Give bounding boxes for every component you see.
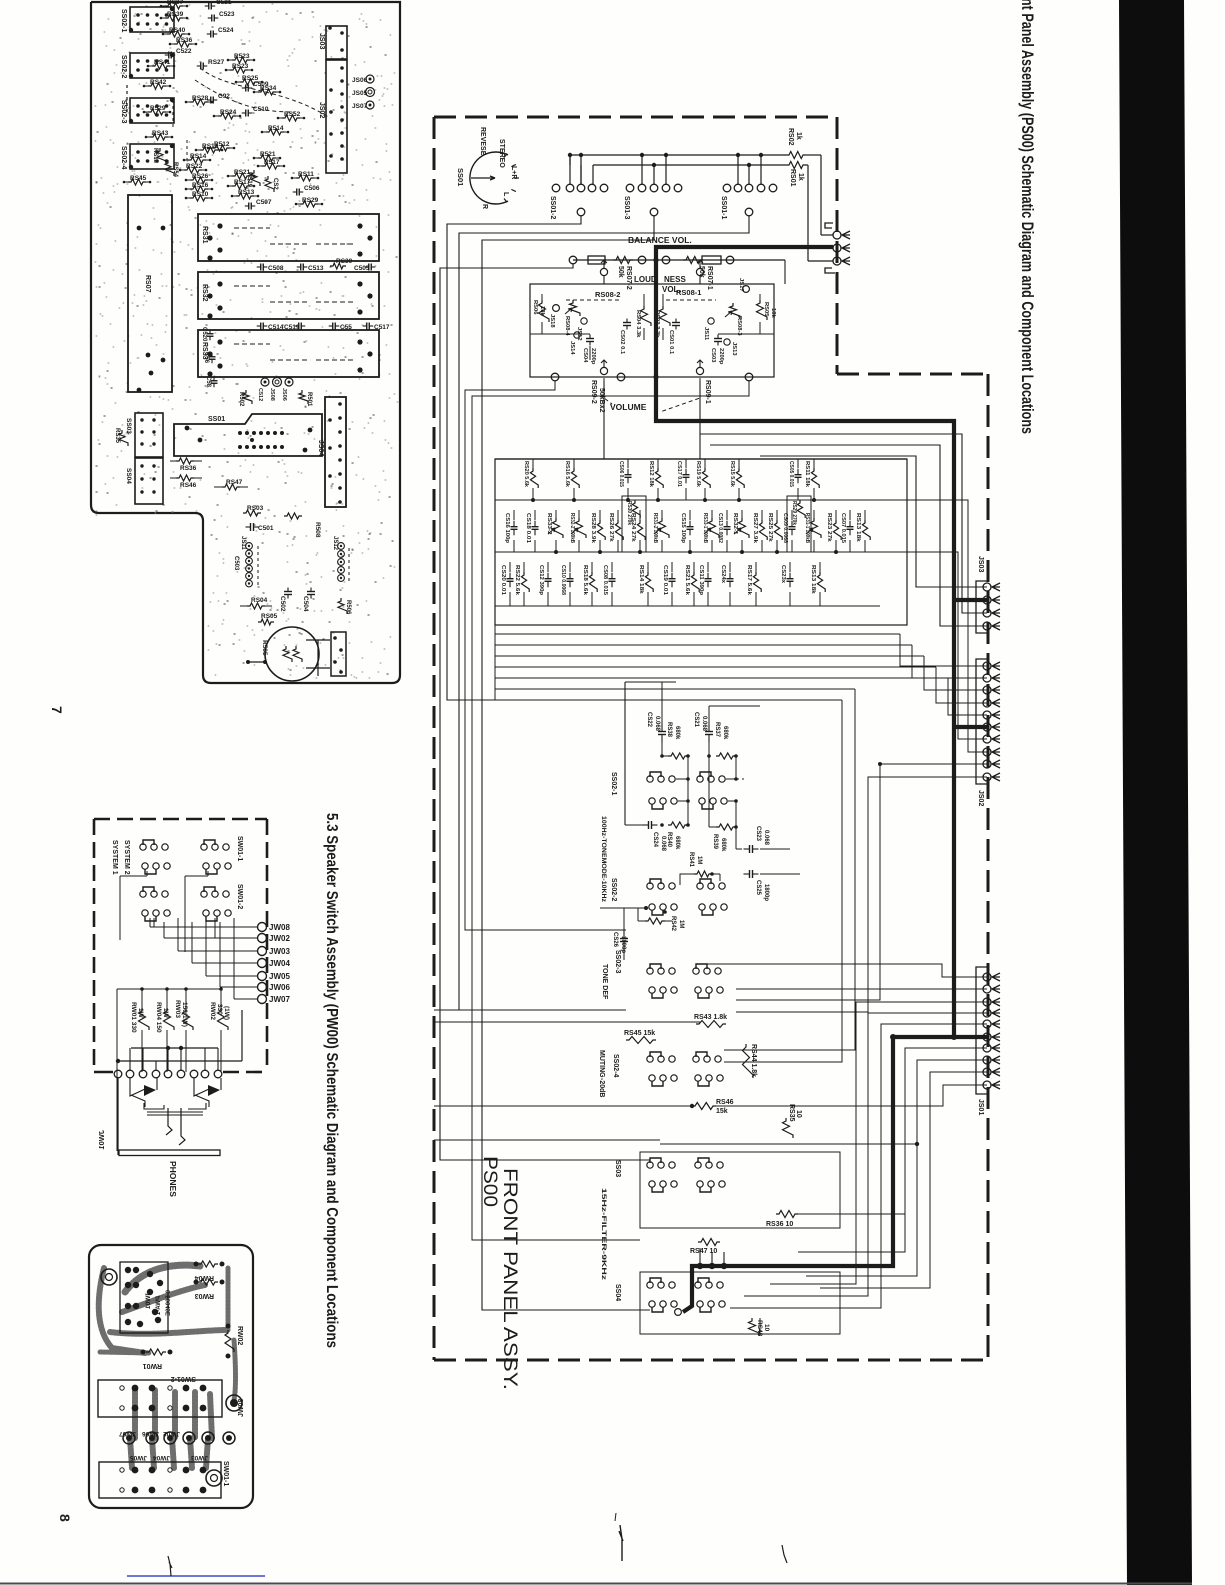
- blue pen line bottom left: [127, 1575, 265, 1577]
- switch row SS01-1: [723, 184, 731, 192]
- svg-text:100Hz-TONEMODE-10KHz: 100Hz-TONEMODE-10KHz: [600, 816, 607, 903]
- svg-text:RS09-1: RS09-1: [704, 380, 711, 404]
- PCB scattered resistors and capacitors: [165, 3, 183, 9]
- svg-text:RS04: RS04: [251, 597, 268, 604]
- svg-text:CS16 100p: CS16 100p: [504, 513, 510, 543]
- svg-text:RS41: RS41: [688, 852, 694, 868]
- svg-text:RS21 5.6k: RS21 5.6k: [684, 565, 690, 596]
- svg-text:C55: C55: [340, 324, 352, 331]
- top bus wires: [570, 154, 786, 156]
- svg-text:R505: R505: [261, 640, 268, 656]
- svg-text:R506: R506: [345, 600, 351, 615]
- PCB caps C520 C56 C58 left column: [209, 330, 211, 334]
- svg-text:JW01: JW01: [145, 1292, 152, 1309]
- svg-text:CS13 0.0082: CS13 0.0082: [717, 513, 723, 543]
- svg-text:JS12: JS12: [332, 536, 338, 551]
- svg-text:RS29: RS29: [302, 197, 319, 204]
- svg-text:0.068: 0.068: [654, 716, 660, 732]
- thick wire JS02 branch: [954, 725, 987, 729]
- terminals JW08-JW07: [258, 923, 267, 932]
- loudness network box: [530, 284, 774, 377]
- SS04 box: [640, 1272, 840, 1334]
- balance wiper circles: [600, 268, 607, 275]
- svg-text:CS06 0.015: CS06 0.015: [618, 461, 624, 488]
- resistor RS40 680k: [668, 822, 688, 828]
- svg-text:RS05: RS05: [763, 302, 769, 317]
- resistor RS22: [523, 562, 525, 572]
- resistor RS12: [657, 459, 659, 468]
- PW00 trace blobs: [125, 1265, 200, 1292]
- resistor RS27: [761, 510, 763, 520]
- right bundle verticals to JS02: [900, 634, 987, 666]
- svg-text:CS24x: CS24x: [720, 565, 726, 584]
- svg-text:RS08-3: RS08-3: [736, 316, 742, 336]
- svg-text:1k: 1k: [797, 173, 804, 181]
- svg-text:JS08: JS08: [269, 388, 275, 401]
- capacitor CS08: [611, 562, 613, 572]
- resistor RS01 1k: [786, 162, 806, 169]
- bus stubs to switch rows: [569, 155, 571, 184]
- svg-text:2200p: 2200p: [718, 348, 724, 365]
- left vertical feed wires: [465, 381, 626, 930]
- svg-text:RS24 27k: RS24 27k: [630, 513, 636, 543]
- svg-text:RS18 5.6k: RS18 5.6k: [582, 565, 588, 596]
- switch SS02-2 contacts: [650, 879, 661, 884]
- svg-text:RS03 3.3k: RS03 3.3k: [654, 310, 660, 338]
- svg-text:RS39: RS39: [712, 834, 718, 850]
- switch SS03 contacts: [650, 1158, 661, 1163]
- wires to tone right side: [700, 434, 987, 613]
- tone block rails: [495, 499, 907, 501]
- svg-text:RS19: RS19: [246, 172, 252, 188]
- svg-text:RS35: RS35: [114, 428, 120, 444]
- phones jack left wire: [117, 1078, 119, 1155]
- svg-text:REVESE: REVESE: [479, 127, 486, 156]
- capacitor CS23x: [789, 562, 791, 572]
- PCB pot RS31: [198, 214, 379, 261]
- PCB caps C502 C504: [287, 588, 289, 592]
- svg-text:JW01: JW01: [97, 1130, 106, 1150]
- svg-text:RS05: RS05: [261, 613, 278, 620]
- svg-text:RW03: RW03: [195, 1292, 214, 1299]
- svg-text:RW02: RW02: [209, 1002, 216, 1020]
- svg-text:JW03: JW03: [269, 947, 290, 956]
- svg-text:RS38: RS38: [666, 722, 672, 738]
- svg-text:RS26 27k: RS26 27k: [608, 513, 614, 543]
- svg-text:SW01-2: SW01-2: [171, 1375, 196, 1382]
- svg-text:RS41: RS41: [154, 59, 171, 66]
- svg-text:RS13 18k: RS13 18k: [855, 513, 861, 543]
- svg-text:SS03: SS03: [125, 418, 132, 434]
- svg-text:SS01-1: SS01-1: [720, 196, 727, 219]
- resistor RS31-1: [813, 510, 815, 520]
- svg-text:RS26: RS26: [192, 173, 209, 180]
- svg-text:R523: R523: [234, 53, 250, 60]
- svg-text:RS36: RS36: [176, 37, 193, 44]
- svg-text:C501: C501: [258, 525, 274, 532]
- PCB dashed wire left: [126, 85, 128, 112]
- svg-text:RS42: RS42: [670, 916, 676, 932]
- svg-text:CS05 0.015: CS05 0.015: [788, 461, 794, 488]
- resistor RS36 10: [776, 1211, 798, 1218]
- svg-text:R502: R502: [238, 392, 244, 407]
- svg-text:JW07: JW07: [119, 1430, 136, 1437]
- svg-text:C507: C507: [256, 199, 272, 206]
- svg-text:RS20 5.6k: RS20 5.6k: [523, 461, 529, 488]
- wire into SS02-2: [600, 907, 646, 909]
- svg-text:CS17 0.01: CS17 0.01: [676, 461, 682, 488]
- svg-text:STEREO: STEREO: [498, 139, 505, 168]
- svg-text:JS18: JS18: [549, 314, 555, 328]
- switch row SS01-3: [626, 184, 634, 192]
- svg-text:CS09 0.0068: CS09 0.0068: [782, 513, 788, 544]
- PW00 pad cluster rect: [120, 1262, 168, 1333]
- connector JS04 pins: [825, 223, 833, 228]
- switch block SS02-1 left rail: [624, 682, 626, 825]
- switch SS04 contacts: [650, 1278, 661, 1283]
- svg-text:RW01 330: RW01 330: [130, 1002, 137, 1033]
- PCB rotary switch SS01 block: [174, 414, 322, 456]
- svg-text:SYSTEM 2: SYSTEM 2: [123, 840, 130, 875]
- PW00 resistor RW04: [198, 1261, 218, 1267]
- svg-text:1800p: 1800p: [763, 884, 769, 901]
- svg-text:1M: 1M: [678, 920, 684, 928]
- phones jack spring contacts: [144, 1103, 164, 1109]
- resistor RS44 1.8k: [743, 1044, 754, 1078]
- resistor RW04 150 1W: [164, 1008, 175, 1030]
- svg-text:JS01: JS01: [977, 1099, 984, 1115]
- PW00 resistor RW03: [198, 1279, 218, 1285]
- switch SS02-1 contacts row2: [649, 798, 655, 804]
- svg-text:SS02-1: SS02-1: [120, 9, 127, 32]
- resistor RS16: [573, 459, 575, 468]
- svg-text:0-50049E: 0-50049E: [166, 1290, 172, 1316]
- junction dots on bundle: [915, 1142, 919, 1146]
- PW00 board outline: [89, 1245, 253, 1508]
- nested wire rails below tone block: [495, 633, 900, 635]
- svg-text:JW05: JW05: [130, 1454, 147, 1461]
- svg-text:0.068: 0.068: [763, 830, 769, 846]
- PCB stipple texture: [95, 4, 398, 678]
- PCB resistors RS36 RS46 RS47: [176, 458, 194, 464]
- resistor RS32-1: [741, 510, 743, 520]
- svg-text:RS13 18k: RS13 18k: [810, 565, 816, 595]
- svg-text:C517: C517: [374, 324, 390, 331]
- resistor RS06 18k: [539, 300, 550, 322]
- svg-text:JW02: JW02: [163, 1430, 180, 1437]
- svg-text:RS03: RS03: [247, 505, 264, 512]
- svg-text:NESS: NESS: [664, 275, 686, 284]
- svg-text:JS13: JS13: [731, 342, 737, 356]
- svg-text:JS04: JS04: [317, 440, 324, 456]
- PCB pads JS06 JS05 JS07: [366, 75, 374, 83]
- resistor RS33-1: [711, 510, 713, 520]
- capacitor CS21 0.068: [708, 724, 710, 732]
- svg-text:RS24: RS24: [220, 109, 237, 116]
- resistor RS18: [591, 562, 593, 572]
- svg-text:18k: 18k: [539, 306, 545, 316]
- svg-text:1k: 1k: [795, 132, 802, 140]
- svg-text:R514: R514: [268, 125, 284, 132]
- resistor RS05 18k: [757, 300, 768, 320]
- capacitor CS13: [726, 510, 728, 520]
- svg-text:JW08: JW08: [269, 923, 290, 932]
- PW00 dashed border: [94, 818, 267, 821]
- PW00 resistor RW02: [225, 1330, 234, 1352]
- PCB cap row C514 C519 C55 C517: [257, 325, 261, 327]
- svg-text:CS08 0.015: CS08 0.015: [602, 565, 608, 596]
- svg-text:18k: 18k: [770, 308, 776, 318]
- svg-text:JW07: JW07: [269, 995, 290, 1004]
- volume wiper wires down: [603, 381, 605, 459]
- svg-text:RW03: RW03: [174, 1000, 181, 1018]
- horizontal feeds lower left: [434, 1105, 692, 1107]
- svg-text:15Hz-FILTER-9KHz: 15Hz-FILTER-9KHz: [600, 1188, 607, 1281]
- svg-text:RS11 18k: RS11 18k: [804, 461, 810, 488]
- capacitor CS20: [509, 562, 511, 572]
- capacitor CS06: [627, 459, 629, 468]
- svg-text:L+R: L+R: [510, 166, 517, 179]
- capacitor CS03 2200p: [717, 335, 719, 339]
- svg-text:C519: C519: [284, 324, 300, 331]
- svg-text:SS02-3: SS02-3: [120, 100, 127, 123]
- phones bar: [119, 1150, 220, 1156]
- svg-text:SS01: SS01: [456, 168, 465, 186]
- capacitor CS25 1800p: [744, 873, 750, 875]
- switch SS02-1 contacts row1: [650, 772, 661, 777]
- PCB resistors RS04 RS05 RS06: [247, 603, 265, 609]
- svg-text:JW03: JW03: [191, 1454, 208, 1461]
- phones jack terminals: [114, 1070, 122, 1078]
- svg-text:680k: 680k: [674, 836, 680, 850]
- resistor RS43 1.8k: [696, 1021, 726, 1028]
- svg-text:RS43 1.8k: RS43 1.8k: [694, 1014, 727, 1021]
- capacitor CS09: [791, 510, 793, 520]
- svg-text:1M: 1M: [696, 856, 702, 864]
- svg-text:RS16: RS16: [192, 182, 209, 189]
- wire from balance line left: [440, 264, 650, 1160]
- svg-text:1W: 1W: [137, 1008, 144, 1019]
- PCB small block right of circle: [331, 632, 346, 676]
- resistor RS32-2: [578, 510, 580, 520]
- resistor RS35 10: [783, 1118, 794, 1138]
- svg-text:RS40: RS40: [666, 832, 672, 848]
- resistor RW03 150(1W): [183, 1008, 194, 1030]
- svg-text:RS17 5.6k: RS17 5.6k: [746, 565, 752, 596]
- svg-text:SW01-2: SW01-2: [236, 884, 243, 909]
- rotary switch SS01 arc: [470, 152, 508, 204]
- svg-text:MUTING: MUTING: [598, 1050, 605, 1078]
- svg-text:JS11: JS11: [703, 327, 709, 341]
- switch SW01-1 contacts: [143, 840, 154, 845]
- svg-text:R529: R529: [150, 105, 166, 112]
- svg-text:JW08: JW08: [238, 1399, 245, 1417]
- PW00 resistor RW01: [146, 1349, 166, 1355]
- svg-text:RS16 5.6k: RS16 5.6k: [564, 461, 570, 488]
- svg-text:10: 10: [795, 1110, 802, 1118]
- svg-text:5.3 Speaker Switch Assembly (: 5.3 Speaker Switch Assembly (PW00) Schem…: [323, 813, 340, 1348]
- jumper JS11: [708, 318, 714, 324]
- capacitor CS19: [671, 562, 673, 572]
- svg-text:SW01-1: SW01-1: [222, 1461, 229, 1486]
- svg-text:RS14: RS14: [190, 153, 207, 160]
- resistor RS15: [738, 459, 740, 468]
- svg-text:RS31-2 100kB: RS31-2 100kB: [652, 513, 658, 543]
- bottom scan strip: [0, 1583, 1192, 1585]
- svg-text:330: 330: [216, 1004, 223, 1015]
- PW00 switch box SW01-2: [98, 1380, 222, 1417]
- svg-text:R512: R512: [214, 141, 230, 148]
- svg-text:RS19 5.6k: RS19 5.6k: [695, 461, 701, 488]
- PCB switch SS02-1: [130, 7, 174, 32]
- resistor RS20: [532, 459, 534, 468]
- svg-text:JW04: JW04: [269, 959, 290, 968]
- thick wire junction dots SS04: [697, 1263, 703, 1269]
- svg-text:JS17: JS17: [738, 278, 744, 292]
- svg-text:JW02: JW02: [269, 934, 290, 943]
- loudness internal wires: [541, 294, 543, 300]
- resistor RS46 15k: [692, 1103, 716, 1110]
- capacitor CS05: [797, 459, 799, 468]
- PCB pot RS33: [198, 330, 379, 377]
- PS00 PCB board outline: [91, 2, 400, 683]
- jumper JS13: [724, 339, 730, 345]
- svg-text:PHONES: PHONES: [168, 1161, 178, 1197]
- svg-text:RS43: RS43: [152, 130, 169, 137]
- wires to JS04: [820, 155, 822, 235]
- PCB cap row C508 C513 RS30 C505: [257, 266, 261, 268]
- svg-text:JW05: JW05: [269, 972, 290, 981]
- resistor RS13: [819, 562, 821, 572]
- svg-text:RS08-1: RS08-1: [676, 288, 701, 297]
- svg-text:RS46: RS46: [180, 482, 197, 489]
- PCB switch SS02-4: [130, 144, 174, 169]
- scan black edge bar: [1119, 0, 1192, 1585]
- svg-text:RS27 3.9k: RS27 3.9k: [752, 513, 758, 544]
- capacitor CS12: [547, 562, 549, 572]
- resistor RS24: [639, 510, 641, 520]
- svg-text:SS01: SS01: [208, 416, 225, 423]
- resistor RS14: [647, 562, 649, 572]
- svg-text:2200p: 2200p: [590, 348, 596, 365]
- SS03 box wires: [640, 1152, 840, 1228]
- svg-text:JS11: JS11: [240, 536, 246, 550]
- svg-text:RS09-2: RS09-2: [590, 380, 597, 404]
- svg-text:C514: C514: [268, 324, 284, 331]
- PW00 screw hole right: [206, 1470, 222, 1486]
- svg-text:C504: C504: [302, 596, 309, 612]
- svg-text:RS06: RS06: [532, 300, 538, 315]
- svg-text:RS02: RS02: [787, 128, 794, 146]
- svg-text:RS23 27k: RS23 27k: [826, 513, 832, 543]
- PCB lower area RS03 C501: [243, 510, 261, 516]
- PCB vertical resistors RS18 RS54: [157, 148, 166, 164]
- PCB switch SS02-3: [130, 98, 174, 123]
- svg-text:(1W): (1W): [223, 1006, 230, 1020]
- svg-text:RS08-4: RS08-4: [564, 316, 570, 336]
- svg-text:JS14: JS14: [569, 341, 575, 355]
- resistor RW01 330 1W: [139, 1008, 150, 1030]
- svg-text:CS02 0.1: CS02 0.1: [619, 330, 625, 355]
- svg-text:RS52: RS52: [284, 111, 301, 118]
- PCB connector JS04 tall right: [325, 397, 346, 507]
- connector JS01: [976, 967, 989, 1094]
- resistor RS07-2 50k: [613, 257, 633, 264]
- PCB wires near circle: [248, 661, 265, 663]
- svg-text:RS47 10: RS47 10: [690, 1248, 717, 1255]
- PCB big circle R505: [265, 627, 319, 681]
- wire bundle JS01: [700, 964, 987, 977]
- resistor rail: [117, 988, 221, 990]
- svg-text:C502: C502: [279, 596, 286, 612]
- svg-text:RS28: RS28: [192, 95, 209, 102]
- svg-text:C508: C508: [268, 265, 284, 272]
- resistor RS21: [693, 562, 695, 572]
- PW00 JW08 pad: [226, 1395, 242, 1411]
- resistor RS39 680k: [716, 824, 736, 830]
- capacitor CS16: [513, 510, 515, 520]
- resistor RS41 1M: [694, 871, 712, 877]
- svg-text:CS12 390p: CS12 390p: [538, 565, 544, 595]
- capacitor CS07: [849, 510, 851, 520]
- capacitor CS24x: [729, 562, 731, 572]
- svg-text:C522: C522: [176, 48, 192, 55]
- switch SS02-4 contacts: [650, 1052, 661, 1057]
- PCB blocks SS03 SS04 lower-left: [135, 413, 163, 457]
- svg-text:C505: C505: [354, 265, 370, 272]
- svg-text:JS03: JS03: [977, 556, 984, 572]
- resistor RS17: [755, 562, 757, 572]
- resistor RS47 10: [698, 1239, 720, 1246]
- capacitor CS23 0.068: [744, 848, 750, 850]
- capacitor CS24 0.068: [643, 824, 649, 826]
- resistor RS48 10: [749, 1318, 760, 1336]
- svg-text:RS36 10: RS36 10: [766, 1221, 793, 1228]
- capacitor CS04 2200p: [589, 335, 591, 339]
- svg-text:R: R: [481, 204, 488, 209]
- svg-text:VOLUME: VOLUME: [610, 402, 647, 412]
- svg-text:C512: C512: [257, 388, 263, 401]
- resistor RS28: [599, 510, 601, 520]
- svg-text:JS06: JS06: [281, 388, 287, 401]
- svg-text:RW04 150: RW04 150: [155, 1002, 162, 1033]
- pot RS08-3: [730, 303, 741, 319]
- svg-text:JS03: JS03: [318, 33, 325, 49]
- resistor RS30 270k: [632, 500, 640, 518]
- switch row SS01-2: [552, 184, 560, 192]
- capacitor CS18: [534, 510, 536, 520]
- rails into SS02-3: [434, 1009, 626, 1011]
- SW01 wires: [146, 871, 148, 876]
- svg-text:C521: C521: [216, 0, 232, 6]
- tone block outer rect: [495, 459, 907, 625]
- phones jack right contact pair: [194, 1078, 209, 1096]
- capacitor CS17: [685, 459, 687, 468]
- svg-text:C56: C56: [203, 352, 209, 364]
- resistor RS38 680k: [668, 753, 688, 759]
- svg-text:RS36: RS36: [180, 465, 197, 472]
- svg-text:C523: C523: [219, 11, 235, 18]
- svg-text:CS10 0.0068: CS10 0.0068: [560, 565, 566, 596]
- svg-text:SS01-2: SS01-2: [549, 196, 556, 219]
- svg-text:15k: 15k: [716, 1108, 728, 1115]
- svg-text:RS42: RS42: [150, 79, 167, 86]
- svg-text:0.068: 0.068: [660, 836, 666, 852]
- svg-text:680k: 680k: [722, 726, 728, 740]
- svg-text:680k: 680k: [720, 838, 726, 852]
- svg-text:FRONT PANEL ASSY.: FRONT PANEL ASSY.: [499, 1168, 520, 1390]
- resistor RS26: [617, 510, 619, 520]
